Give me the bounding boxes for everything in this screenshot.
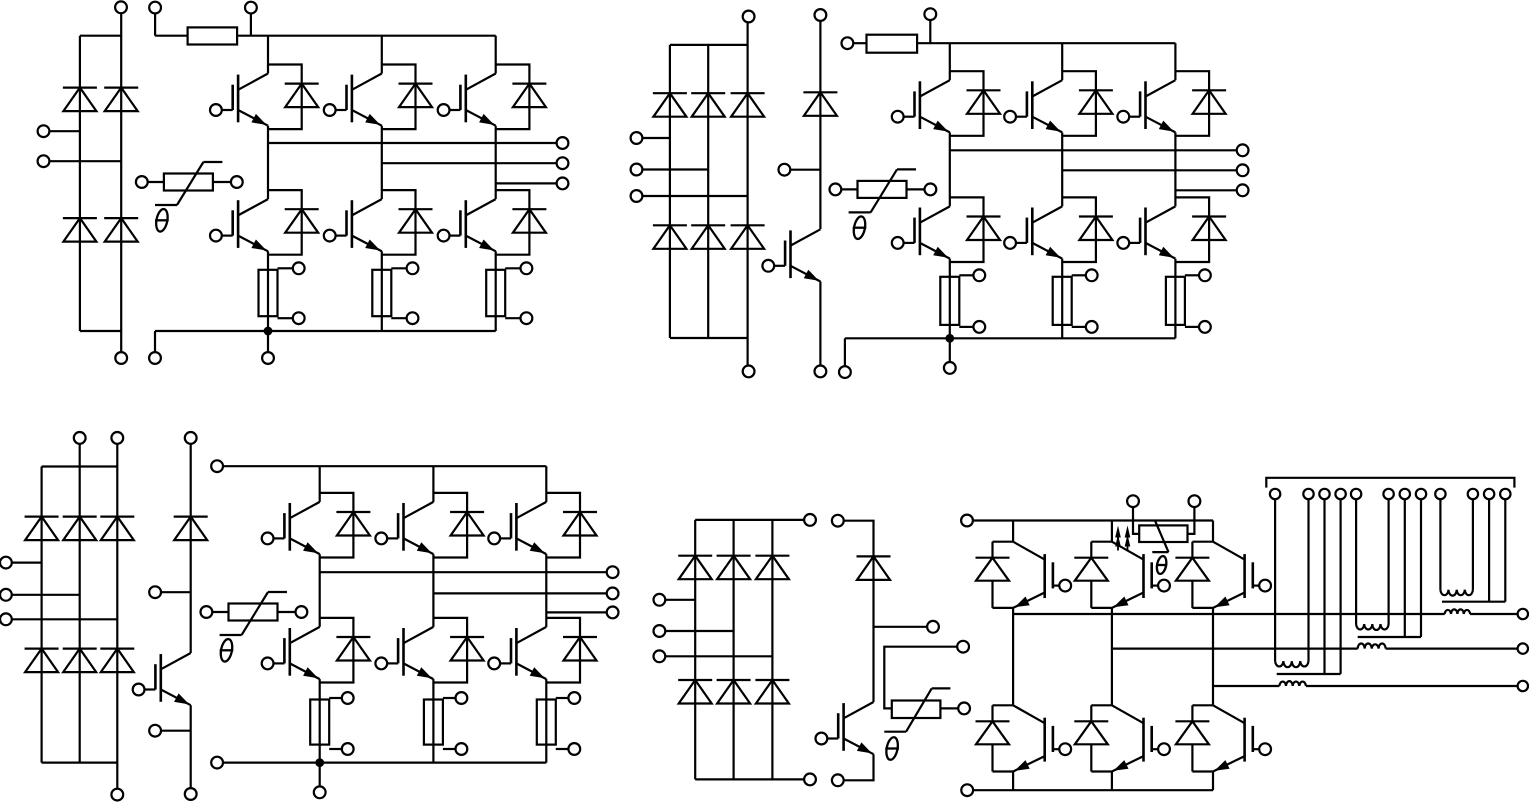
circuit 3 terminal P3 xyxy=(211,460,223,472)
circuit 3 IGBT Q3 upper xyxy=(488,502,546,554)
circuit 4 phase inductor V xyxy=(1358,644,1386,649)
circuit 1 diode D3 xyxy=(63,218,97,242)
circuit 2 shunt resistor RS3 xyxy=(1166,269,1211,332)
circuit 2 terminal chopper emitter xyxy=(815,366,827,378)
circuit 4 thermistor RT1 label xyxy=(1155,555,1167,574)
circuit 2 AC input terminal 1 xyxy=(631,132,643,144)
circuit 4 phase wire V left xyxy=(1112,647,1358,649)
circuit 2 phase output terminal W xyxy=(1237,184,1249,196)
circuit 4 transformer T3 terminal a xyxy=(1270,489,1280,499)
circuit 1 diode D7 freewheel xyxy=(496,65,547,130)
circuit 4 wire emitter leg 3 xyxy=(1212,772,1214,791)
circuit 3 diode D12 freewheel xyxy=(433,618,484,683)
circuit 2 N bus wire xyxy=(845,337,1176,339)
circuit 4 AC input terminal 2 xyxy=(654,625,666,637)
circuit 4 rectifier rail 2 wire xyxy=(732,520,734,780)
circuit 3 IGBT Q7 chopper xyxy=(133,653,191,705)
circuit 4 transformer T2 primary coil xyxy=(1356,624,1389,630)
circuit 2 terminal P3 xyxy=(924,8,936,20)
circuit 2 rectifier rail 3 wire xyxy=(746,22,748,366)
circuit 2 wire emitter leg 2 xyxy=(1061,259,1063,339)
circuit 2 DC+ bus wire xyxy=(917,42,1175,44)
circuit 4 diode D3 xyxy=(755,556,789,580)
circuit 3 wire leg 1 collector xyxy=(319,466,321,502)
circuit 4 diode D2 xyxy=(717,556,751,580)
circuit 3 terminal N1 xyxy=(111,789,123,801)
circuit 4 wire chopper top xyxy=(843,521,873,702)
circuit 4 transformer T2 lead c xyxy=(1404,499,1406,637)
circuit 4 rectifier rail 3 wire xyxy=(771,520,773,780)
circuit 2 wire leg 3 midpoint xyxy=(1174,132,1176,206)
circuit 2 wire leg 2 midpoint xyxy=(1061,132,1063,206)
circuit 4 AC input wire 3 xyxy=(665,655,772,657)
circuit 3 wire node N drop xyxy=(319,763,321,787)
circuit 2 IGBT Q2 upper xyxy=(1004,80,1062,132)
circuit 3 IGBT Q5 lower xyxy=(375,627,433,679)
circuit 2 terminal N3 xyxy=(944,362,956,374)
circuit 2 phase output terminal V xyxy=(1237,164,1249,176)
circuit 4 IGBT Q3 upper with diode D10 xyxy=(1175,542,1271,608)
circuit 4 N bus wire xyxy=(973,789,1213,791)
circuit 1 rectifier right rail wire xyxy=(120,13,122,353)
circuit 1 wire leg 1 midpoint xyxy=(267,126,269,199)
circuit 3 AC input wire 3 xyxy=(12,618,118,620)
circuit 3 N bus wire xyxy=(223,761,547,763)
circuit 4 wire thermistor bend xyxy=(884,647,957,709)
circuit 1 diode D2 xyxy=(104,88,138,112)
circuit 1 terminal N2 xyxy=(149,352,161,364)
circuit 3 diode D6 xyxy=(100,649,134,673)
circuit 2 phase output terminal U xyxy=(1237,144,1249,156)
circuit 1 phase output terminal W xyxy=(557,178,569,190)
circuit 4 transformer T1 terminal a xyxy=(1435,489,1445,499)
circuit 4 light arrow 2 xyxy=(1125,526,1131,551)
circuit 4 phase inductor W xyxy=(1279,681,1306,686)
circuit 1 wire leg 2 collector xyxy=(381,36,383,74)
circuit 4 IGBT Q7 chopper xyxy=(816,702,874,754)
circuit 2 wire chopper emitter xyxy=(819,282,821,366)
circuit 4 transformer T1 terminal b xyxy=(1468,489,1478,499)
circuit 2 rectifier top wire xyxy=(670,44,748,46)
circuit 3 diode D8 freewheel xyxy=(320,493,371,558)
circuit 4 wire chopper emitter xyxy=(843,754,873,780)
circuit 2 diode D10 freewheel xyxy=(1175,71,1226,136)
circuit 1 terminal P2 xyxy=(149,2,161,14)
circuit 1 wire leg 2 midpoint xyxy=(381,126,383,199)
circuit 2 diode D13 freewheel xyxy=(1175,197,1226,262)
circuit 4 wire leg 3 midpoint xyxy=(1212,608,1214,705)
circuit 4 phase output terminal V xyxy=(1518,643,1528,653)
circuit 3 wire leg 3 collector xyxy=(545,466,547,502)
circuit 3 AC input wire 1 xyxy=(12,561,42,563)
circuit 3 IGBT Q2 upper xyxy=(375,502,433,554)
circuit 4 terminal thermistor 3 xyxy=(1127,495,1139,507)
circuit 4 terminal N1 xyxy=(804,774,816,786)
circuit 1 DC+ bus wire xyxy=(237,35,496,37)
circuit 4 terminal thermistor 1 xyxy=(957,641,969,653)
circuit 1 diode D9 freewheel xyxy=(382,190,433,255)
circuit 4 terminal chopper emitter xyxy=(832,774,844,786)
circuit 3 diode D1 xyxy=(25,517,59,541)
circuit 1 diode D1 xyxy=(63,88,97,112)
circuit 3 diode D10 freewheel xyxy=(546,493,597,558)
circuit 4 transformer T1 lead a xyxy=(1439,499,1441,590)
circuit 1 IGBT Q2 upper xyxy=(324,74,382,126)
circuit 3 rectifier top wire xyxy=(42,465,118,467)
circuit 1 wire emitter leg 3 xyxy=(495,251,497,331)
circuit 2 phase output wire V xyxy=(1062,169,1237,171)
circuit 1 IGBT Q4 lower xyxy=(210,199,268,251)
circuit 2 IGBT Q1 upper xyxy=(892,80,950,132)
circuit 4 rectifier top wire xyxy=(695,519,804,521)
circuit 2 resistor R1 xyxy=(867,35,918,53)
circuit 4 transformer T1 terminal d xyxy=(1500,489,1510,499)
circuit 4 transformer T3 terminal b xyxy=(1303,489,1313,499)
circuit 3 chopper rail wire xyxy=(190,444,192,654)
circuit 4 transformer T1 lead c xyxy=(1488,499,1490,602)
circuit 1 junction node N xyxy=(264,327,273,336)
circuit 1 IGBT Q6 lower xyxy=(438,199,496,251)
circuit 3 IGBT Q1 upper xyxy=(262,502,320,554)
circuit 4 IGBT Q4 lower with diode D11 xyxy=(976,705,1072,771)
circuit 4 IGBT Q2 upper with diode D9 xyxy=(1074,542,1170,608)
circuit 2 AC input wire 3 xyxy=(642,195,748,197)
circuit 3 rectifier rail 2 wire xyxy=(79,444,81,763)
circuit 1 terminal N3 xyxy=(262,352,274,364)
circuit 4 diode D7 chopper xyxy=(857,556,891,580)
circuit 3 wire chopper aux collector xyxy=(161,591,191,593)
circuit 2 IGBT Q3 upper xyxy=(1117,80,1175,132)
circuit 4 transformer T2 terminal b xyxy=(1383,489,1393,499)
circuit 4 wire emitter leg 1 xyxy=(1012,772,1014,791)
circuit 2 AC input wire 2 xyxy=(642,168,708,170)
circuit 2 terminal N1 xyxy=(743,366,755,378)
circuit 4 terminal thermistor 4 xyxy=(1189,495,1201,507)
circuit 2 wire emitter leg 1 xyxy=(949,259,951,339)
circuit 3 phase output terminal U xyxy=(607,566,619,578)
circuit 1 wire N bus left drop xyxy=(154,331,156,352)
circuit 1 rectifier left rail wire xyxy=(79,36,81,331)
circuit 2 wire xyxy=(853,42,867,44)
circuit 1 shunt resistor RS2 xyxy=(372,262,418,324)
circuit 2 phase output wire U xyxy=(950,149,1237,151)
circuit 4 wire thermistor lead right xyxy=(1188,507,1195,534)
circuit 2 diode D4 xyxy=(653,225,687,249)
circuit 3 wire chopper aux emitter xyxy=(161,730,191,732)
circuit 3 wire chopper emitter xyxy=(190,705,192,788)
circuit 4 phase inductor U xyxy=(1445,609,1470,614)
circuit 3 shunt resistor RS1 xyxy=(310,692,353,755)
circuit 2 chopper rail wire xyxy=(819,21,821,230)
circuit 3 AC input wire 2 xyxy=(12,594,80,596)
circuit 1 IGBT Q1 upper xyxy=(210,74,268,126)
circuit 2 AC input terminal 3 xyxy=(631,190,643,202)
circuit 1 terminal P1 xyxy=(115,1,127,13)
circuit 3 diode D9 freewheel xyxy=(433,493,484,558)
circuit 4 phase wire V right xyxy=(1386,647,1518,649)
circuit 3 phase output wire V xyxy=(433,592,607,594)
circuit 1 phase output terminal U xyxy=(557,137,569,149)
circuit 4 AC input wire 1 xyxy=(665,599,695,601)
circuit 3 phase output wire W xyxy=(546,611,607,613)
circuit 4 wire thermistor lead left xyxy=(1133,507,1139,534)
circuit 4 transformer T1 primary coil xyxy=(1440,590,1473,596)
circuit 4 light arrow 1 xyxy=(1115,526,1121,551)
circuit 4 terminal thermistor 2 xyxy=(958,703,970,715)
circuit 1 rectifier top wire xyxy=(80,35,121,37)
circuit 2 IGBT Q7 chopper xyxy=(762,229,820,281)
circuit 2 terminal P1 xyxy=(743,11,755,23)
circuit 3 IGBT Q4 lower xyxy=(262,627,320,679)
circuit 4 diode D5 xyxy=(717,680,751,704)
circuit 4 wire emitter leg 2 xyxy=(1111,772,1113,791)
circuit 4 transformer T2 terminal c xyxy=(1400,489,1410,499)
circuit 3 shunt resistor RS2 xyxy=(424,692,467,755)
circuit 4 AC input wire 2 xyxy=(665,630,734,632)
circuit 2 diode D9 freewheel xyxy=(1062,71,1113,136)
circuit 1 diode D6 freewheel xyxy=(382,65,433,130)
circuit 2 shunt resistor RS1 xyxy=(940,269,985,332)
circuit 2 AC input wire 1 xyxy=(642,137,670,139)
circuit 2 wire N bus left drop xyxy=(844,338,846,366)
circuit 4 transformer T1 lead d xyxy=(1504,499,1506,602)
circuit 1 wire leg 1 collector xyxy=(267,36,269,74)
circuit 4 transformer T2 secondary bar xyxy=(1358,636,1421,638)
circuit 1 wire node N drop xyxy=(267,331,269,352)
circuit 1 phase output wire V xyxy=(382,162,557,164)
circuit 3 IGBT Q6 lower xyxy=(488,627,546,679)
circuit 2 wire emitter leg 3 xyxy=(1174,259,1176,339)
circuit 4 connector bracket xyxy=(1266,478,1514,488)
circuit 2 rectifier rail 2 wire xyxy=(707,45,709,338)
circuit 4 transformer T2 lead d xyxy=(1420,499,1422,637)
circuit 4 thermistor RT2 body xyxy=(892,701,941,719)
circuit 3 diode D7 chopper xyxy=(174,517,208,541)
circuit 4 IGBT Q6 lower with diode D13 xyxy=(1175,705,1271,771)
circuit 1 N bus wire xyxy=(155,330,496,332)
circuit 4 transformer T3 lead b xyxy=(1307,499,1309,661)
circuit 3 diode D11 freewheel xyxy=(320,618,371,683)
circuit 2 shunt resistor RS2 xyxy=(1053,269,1098,332)
circuit 4 transformer T3 primary coil xyxy=(1275,661,1308,667)
circuit 1 phase output wire W xyxy=(496,182,557,184)
circuit 3 terminal chopper aux emitter xyxy=(149,725,161,737)
circuit 1 wire xyxy=(154,13,156,36)
circuit 4 phase output terminal U xyxy=(1518,609,1528,619)
circuit 2 diode D12 freewheel xyxy=(1062,197,1113,262)
circuit 3 diode D4 xyxy=(25,649,59,673)
circuit 2 phase output wire W xyxy=(1175,189,1237,191)
circuit 2 diode D7 chopper xyxy=(803,92,837,116)
circuit 4 transformer T2 terminal d xyxy=(1416,489,1426,499)
circuit 4 phase wire U right xyxy=(1470,613,1517,615)
circuit 2 wire leg 1 midpoint xyxy=(949,132,951,206)
circuit 3 rectifier rail 3 wire xyxy=(116,444,118,790)
circuit 1 AC input terminal 2 xyxy=(38,155,50,167)
circuit 2 wire leg 1 collector xyxy=(949,43,951,80)
circuit 2 AC input terminal 2 xyxy=(631,164,643,176)
circuit 4 transformer T2 terminal a xyxy=(1351,489,1361,499)
circuit 1 diode D10 freewheel xyxy=(496,190,547,255)
circuit 2 diode D3 xyxy=(731,93,765,117)
circuit 4 thermistor RT1 strike xyxy=(1152,521,1168,552)
circuit 3 AC input terminal 2 xyxy=(0,589,12,601)
circuit 3 wire emitter leg 1 xyxy=(319,679,321,763)
circuit 4 rectifier bottom wire xyxy=(695,778,804,780)
circuit 1 AC input terminal 1 xyxy=(38,125,50,137)
circuit 2 rectifier rail 1 wire xyxy=(669,45,671,338)
circuit 1 shunt resistor RS3 xyxy=(486,262,532,324)
circuit 3 terminal N2 xyxy=(211,757,223,769)
circuit 3 wire leg 2 midpoint xyxy=(432,554,434,627)
circuit 4 diode D1 xyxy=(678,556,712,580)
circuit 1 resistor R1 xyxy=(188,27,238,44)
circuit 1 diode D4 xyxy=(104,218,138,242)
circuit 4 transformer T2 lead b xyxy=(1387,499,1389,624)
circuit 1 wire DC+ to resistor xyxy=(155,35,188,37)
circuit 2 diode D1 xyxy=(653,93,687,117)
circuit 2 wire node N drop xyxy=(949,338,951,362)
circuit 2 diode D11 freewheel xyxy=(950,197,1001,262)
circuit 3 AC input terminal 1 xyxy=(0,557,12,569)
circuit 4 diode D6 xyxy=(755,680,789,704)
circuit 4 wire leg 3 collector xyxy=(1212,521,1214,542)
circuit 1 wire leg 3 midpoint xyxy=(495,126,497,199)
circuit 3 wire leg 1 midpoint xyxy=(319,554,321,627)
circuit 1 terminal P3 xyxy=(245,2,257,14)
circuit 4 rectifier rail 1 wire xyxy=(694,520,696,780)
circuit 1 wire leg 3 collector xyxy=(495,36,497,74)
circuit 2 thermistor RT1 xyxy=(830,169,937,240)
circuit 1 thermistor RT1 xyxy=(136,162,243,233)
circuit 1 phase output terminal V xyxy=(557,157,569,169)
circuit 4 wire leg 1 midpoint xyxy=(1012,608,1014,705)
circuit 2 IGBT Q5 lower xyxy=(1004,206,1062,258)
circuit 2 wire chopper aux xyxy=(790,169,820,171)
circuit 4 phase wire U left xyxy=(1013,613,1445,615)
circuit 1 wire emitter leg 1 xyxy=(267,251,269,331)
circuit 2 IGBT Q4 lower xyxy=(892,206,950,258)
circuit 2 junction node N xyxy=(945,334,954,343)
circuit 4 transformer T2 lead a xyxy=(1355,499,1357,624)
circuit 4 transformer T1 lead b xyxy=(1472,499,1474,590)
circuit 3 junction node N xyxy=(315,758,324,767)
circuit 4 transformer T3 terminal c xyxy=(1319,489,1329,499)
circuit 3 rectifier bottom wire xyxy=(42,761,118,763)
circuit 2 terminal chopper aux xyxy=(779,164,791,176)
circuit 3 terminal chopper collector xyxy=(185,432,197,444)
circuit 3 rectifier rail 1 wire xyxy=(40,467,42,763)
circuit 1 terminal N1 xyxy=(115,352,127,364)
circuit 4 wire leg 2 collector xyxy=(1111,521,1113,542)
circuit 4 IGBT Q5 lower with diode D12 xyxy=(1074,705,1170,771)
circuit 3 phase output wire U xyxy=(320,571,607,573)
circuit 3 AC input terminal 3 xyxy=(0,613,12,625)
circuit 4 phase wire W right xyxy=(1306,685,1517,687)
circuit 3 shunt resistor RS3 xyxy=(537,692,580,755)
circuit 4 phase output terminal W xyxy=(1518,681,1528,691)
circuit 4 wire chopper aux tap xyxy=(874,626,928,628)
circuit 1 rectifier bottom wire xyxy=(80,330,121,332)
circuit 4 diode D4 xyxy=(678,680,712,704)
circuit 4 wire leg 1 collector xyxy=(1012,521,1014,542)
circuit 4 transformer T3 lead d xyxy=(1339,499,1341,674)
circuit 4 transformer T3 lead c xyxy=(1323,499,1325,674)
circuit 4 thermistor RT1 body xyxy=(1139,525,1187,542)
circuit 2 diode D8 freewheel xyxy=(950,71,1001,136)
circuit 2 terminal chopper collector xyxy=(815,9,827,21)
circuit 4 wire thermistor right lead xyxy=(940,707,958,709)
circuit 4 phase wire W left xyxy=(1213,685,1279,687)
circuit 3 phase output terminal W xyxy=(607,607,619,619)
circuit 3 terminal P1 xyxy=(74,432,86,444)
circuit 3 diode D13 freewheel xyxy=(546,618,597,683)
circuit 3 terminal chopper emitter xyxy=(185,788,197,800)
circuit 4 terminal chopper aux xyxy=(927,621,939,633)
circuit 3 phase output terminal V xyxy=(607,588,619,600)
circuit 3 terminal P2 xyxy=(111,432,123,444)
circuit 4 terminal P2 xyxy=(961,515,973,527)
circuit 1 AC input wire 2 xyxy=(49,160,121,162)
circuit 2 diode D2 xyxy=(691,93,725,117)
circuit 1 IGBT Q3 upper xyxy=(438,74,496,126)
circuit 3 wire emitter leg 2 xyxy=(432,679,434,763)
circuit 3 diode D3 xyxy=(100,517,134,541)
circuit 4 transformer T1 secondary bar xyxy=(1442,601,1505,603)
circuit 3 diode D2 xyxy=(63,517,97,541)
circuit 4 thermistor RT2 strike xyxy=(884,688,950,731)
circuit 2 wire xyxy=(929,20,931,43)
circuit 1 AC input wire 1 xyxy=(49,130,80,132)
circuit 4 DC+ bus wire xyxy=(973,519,1213,521)
circuit 4 transformer T1 terminal c xyxy=(1484,489,1494,499)
circuit 2 IGBT Q6 lower xyxy=(1117,206,1175,258)
circuit 3 wire emitter leg 3 xyxy=(545,679,547,763)
circuit 4 wire leg 2 midpoint xyxy=(1111,608,1113,705)
circuit 4 transformer T3 terminal d xyxy=(1335,489,1345,499)
circuit 3 terminal N3 xyxy=(314,786,326,798)
circuit 2 terminal P2 xyxy=(842,37,854,49)
circuit 2 diode D5 xyxy=(691,225,725,249)
circuit 3 thermistor RT1 xyxy=(201,592,308,663)
circuit 4 AC input terminal 3 xyxy=(654,650,666,662)
circuit 3 DC+ bus wire xyxy=(223,465,547,467)
circuit 2 wire leg 3 collector xyxy=(1174,43,1176,80)
circuit 3 terminal chopper aux collector xyxy=(149,586,161,598)
circuit 1 diode D5 freewheel xyxy=(268,65,319,130)
circuit 4 thermistor RT2 label xyxy=(885,736,900,760)
circuit 3 wire leg 3 midpoint xyxy=(545,554,547,627)
circuit 4 transformer T3 lead a xyxy=(1274,499,1276,661)
circuit 1 wire xyxy=(250,13,252,36)
circuit 2 wire leg 2 collector xyxy=(1061,43,1063,80)
circuit 1 diode D8 freewheel xyxy=(268,190,319,255)
circuit 4 transformer T3 secondary bar xyxy=(1277,673,1341,675)
circuit 2 diode D6 xyxy=(731,225,765,249)
circuit 2 terminal N2 xyxy=(839,366,851,378)
circuit 4 terminal P1 xyxy=(804,514,816,526)
circuit 4 IGBT Q1 upper with diode D8 xyxy=(976,542,1072,608)
circuit 2 rectifier bottom wire xyxy=(670,337,748,339)
circuit 4 terminal N2 xyxy=(961,784,973,796)
circuit 4 AC input terminal 1 xyxy=(654,594,666,606)
circuit 4 terminal chopper collector xyxy=(832,515,844,527)
circuit 3 wire leg 2 collector xyxy=(432,466,434,502)
circuit 1 wire emitter leg 2 xyxy=(381,251,383,331)
circuit 3 diode D5 xyxy=(63,649,97,673)
circuit 1 IGBT Q5 lower xyxy=(324,199,382,251)
circuit 1 shunt resistor RS1 xyxy=(259,262,305,324)
